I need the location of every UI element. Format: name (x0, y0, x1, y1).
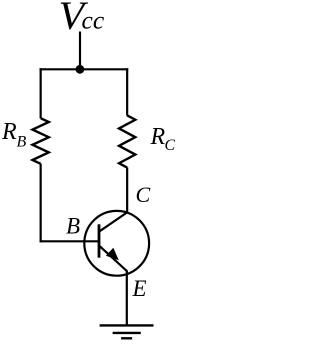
transistor body circle (84, 211, 149, 276)
wire emitter lead (126, 271, 128, 326)
svg-text:C: C (165, 137, 176, 154)
wire left branch lower (40, 164, 42, 243)
resistor RB (33, 118, 49, 164)
transistor Q1 (84, 211, 149, 276)
wire Vcc lead (79, 32, 81, 70)
junction dot (76, 65, 85, 74)
wire right branch upper (126, 68, 128, 115)
svg-text:B: B (66, 214, 80, 239)
label RB (1, 119, 27, 151)
svg-text:C: C (136, 182, 151, 207)
wire base lead (40, 240, 99, 242)
svg-text:cc: cc (82, 6, 105, 35)
label Vcc (59, 0, 105, 38)
emitter arrowhead (106, 248, 119, 260)
svg-text:R: R (150, 124, 166, 150)
wire left branch upper (40, 68, 42, 118)
svg-text:R: R (1, 119, 17, 145)
wire top rail (40, 68, 129, 70)
wire collector lead (126, 167, 128, 212)
svg-text:B: B (17, 134, 27, 151)
base bar (98, 224, 101, 257)
svg-text:E: E (132, 276, 147, 301)
collector stroke (99, 212, 127, 231)
resistor RC (119, 115, 135, 167)
label RC (150, 124, 176, 154)
ground (100, 325, 154, 338)
emitter stroke (99, 245, 127, 271)
